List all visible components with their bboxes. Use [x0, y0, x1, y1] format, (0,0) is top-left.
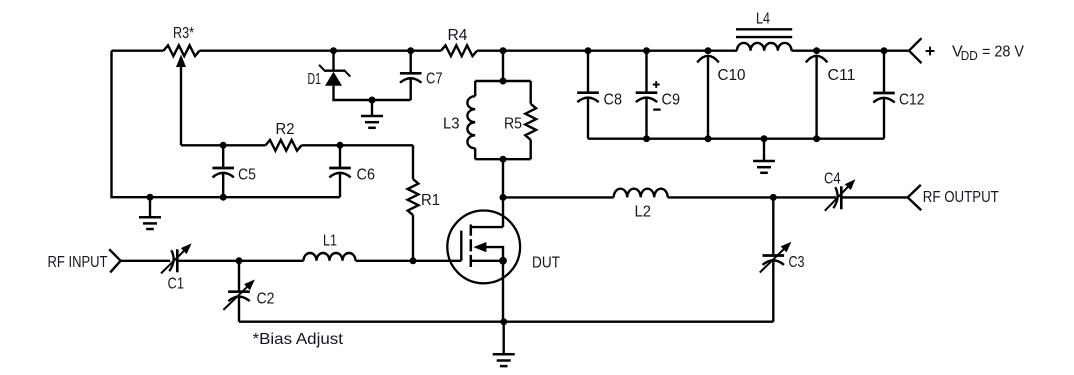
svg-text:C5: C5 [238, 167, 256, 184]
svg-text:RF INPUT: RF INPUT [48, 254, 108, 271]
svg-text:C6: C6 [357, 167, 376, 184]
svg-text:D1: D1 [308, 71, 322, 88]
svg-text:C8: C8 [604, 92, 623, 109]
svg-text:RF OUTPUT: RF OUTPUT [923, 189, 999, 206]
svg-text:C4: C4 [824, 171, 841, 188]
svg-text:L3: L3 [443, 116, 460, 133]
svg-text:R2: R2 [276, 121, 295, 138]
svg-text:R3*: R3* [173, 25, 194, 42]
svg-text:C2: C2 [257, 291, 275, 308]
svg-text:R1: R1 [421, 192, 440, 209]
svg-text:L2: L2 [635, 204, 652, 221]
svg-text:DD: DD [961, 48, 978, 63]
svg-text:R5: R5 [504, 116, 522, 133]
svg-text:C3: C3 [789, 254, 805, 271]
svg-text:C9: C9 [662, 92, 681, 109]
svg-text:DUT: DUT [532, 255, 560, 272]
svg-text:C12: C12 [899, 92, 925, 109]
svg-text:C11: C11 [828, 67, 856, 84]
svg-text:C1: C1 [168, 276, 185, 293]
svg-text:C7: C7 [426, 71, 443, 88]
svg-text:C10: C10 [718, 67, 746, 84]
svg-text:R4: R4 [448, 27, 468, 44]
svg-text:*Bias Adjust: *Bias Adjust [253, 331, 344, 348]
svg-text:= 28 V: = 28 V [982, 43, 1024, 60]
svg-text:L4: L4 [756, 11, 770, 28]
svg-text:L1: L1 [323, 233, 337, 250]
